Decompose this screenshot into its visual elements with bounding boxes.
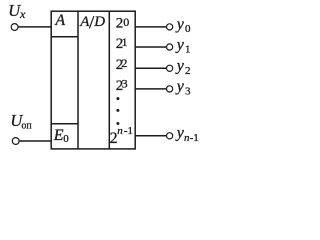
svg-text:-1: -1 [124, 125, 133, 137]
svg-text:1: 1 [122, 35, 128, 49]
svg-text:E: E [53, 127, 64, 144]
svg-text:2: 2 [185, 65, 191, 77]
svg-text:3: 3 [185, 85, 191, 97]
svg-text:A: A [54, 12, 65, 29]
svg-text:2: 2 [121, 56, 127, 70]
svg-text:D: D [93, 14, 105, 30]
svg-text:y: y [175, 58, 185, 75]
svg-text:y: y [175, 78, 185, 95]
svg-text:y: y [175, 16, 185, 33]
svg-text:x: x [19, 7, 26, 21]
svg-text:0: 0 [185, 23, 191, 35]
svg-text:-1: -1 [190, 132, 199, 144]
svg-text:n: n [117, 125, 123, 137]
svg-text:y: y [175, 36, 185, 53]
svg-text:0: 0 [123, 15, 129, 29]
svg-text:A: A [79, 14, 90, 30]
svg-text:3: 3 [122, 77, 128, 91]
svg-text:1: 1 [185, 44, 191, 56]
svg-text:0: 0 [63, 133, 69, 145]
svg-text:оп: оп [21, 121, 32, 132]
svg-text:2: 2 [116, 16, 124, 32]
